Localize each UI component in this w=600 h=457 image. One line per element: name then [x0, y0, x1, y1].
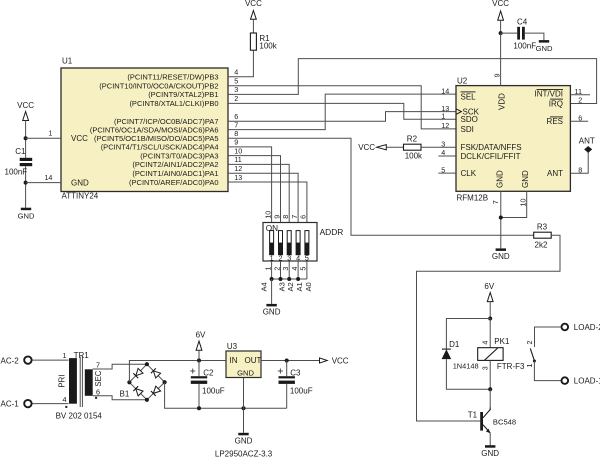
svg-text:INT/VDI: INT/VDI: [535, 90, 563, 99]
svg-text:FSK/DATA/NFFS: FSK/DATA/NFFS: [461, 143, 522, 152]
wire C3 bottom: [286, 384, 288, 408]
svg-text:GND: GND: [481, 449, 499, 457]
svg-text:12: 12: [234, 164, 242, 173]
svg-text:12: 12: [441, 121, 449, 130]
IC U1 ATTINY24 body: [61, 68, 228, 192]
svg-text:TR1: TR1: [74, 351, 90, 360]
svg-text:VCC: VCC: [71, 134, 88, 143]
svg-text:GND: GND: [71, 179, 89, 188]
svg-text:A3: A3: [278, 282, 287, 291]
svg-text:(PCINT4/T1/SCL/USCK/ADC4)PA4: (PCINT4/T1/SCL/USCK/ADC4)PA4: [101, 143, 219, 152]
svg-text:4: 4: [234, 68, 238, 77]
transistor T1 base bar: [480, 412, 483, 431]
wire C4 to ground: [525, 33, 544, 40]
junction node VDD: [499, 31, 503, 35]
svg-text:3: 3: [234, 85, 238, 94]
wire U2 pin10 GND: [501, 191, 527, 217]
svg-text:AC-1: AC-1: [1, 400, 20, 409]
junction node U3 gnd: [242, 406, 246, 410]
junction dots address bus: [270, 277, 301, 281]
svg-text:100nF: 100nF: [513, 41, 536, 50]
wire C2 top: [198, 361, 200, 377]
svg-text:R3: R3: [537, 223, 548, 232]
svg-text:A1: A1: [295, 282, 304, 291]
svg-text:U1: U1: [62, 57, 73, 66]
svg-text:SDO: SDO: [461, 115, 478, 124]
junction node pin14: [24, 181, 28, 185]
svg-text:GND: GND: [492, 252, 510, 261]
svg-text:4: 4: [290, 267, 299, 271]
ground (U2): [496, 248, 506, 251]
wire U2 pin5 stub: [438, 172, 456, 174]
wire PA5 to R3: [228, 138, 534, 235]
svg-text:RES: RES: [547, 117, 563, 126]
svg-text:2: 2: [525, 341, 534, 345]
T1 collector lead: [483, 410, 490, 418]
svg-text:LOAD-1: LOAD-1: [574, 377, 600, 386]
svg-text:7: 7: [491, 200, 500, 204]
diode D1: [442, 349, 452, 359]
TR1 core: [79, 357, 81, 408]
ground (ADDR): [266, 304, 276, 307]
svg-text:3: 3: [281, 267, 290, 271]
svg-text:7: 7: [290, 215, 299, 219]
capacitor C4: [517, 27, 520, 40]
wire U2 pin7 GND: [500, 191, 502, 248]
wire U2 pin6 stub: [570, 120, 588, 122]
svg-text:GND: GND: [521, 170, 530, 188]
svg-text:BC548: BC548: [493, 417, 516, 426]
terminal AC-2: [24, 356, 31, 363]
svg-text:R2: R2: [407, 134, 418, 143]
svg-text:RFM12B: RFM12B: [457, 194, 489, 203]
junction node relay bottom: [488, 387, 492, 391]
svg-text:9: 9: [272, 215, 281, 219]
svg-text:VCC: VCC: [492, 0, 509, 8]
wire relay top to D1: [446, 319, 490, 350]
svg-text:9: 9: [234, 138, 238, 147]
wire DIP bottom bus: [271, 261, 273, 279]
svg-text:CLK: CLK: [461, 169, 477, 178]
svg-text:VCC: VCC: [17, 101, 34, 110]
wire PA2 to DIP pin 8: [228, 164, 289, 222]
svg-text:ATTINY24: ATTINY24: [62, 192, 99, 201]
wire relay coil bottom: [489, 360, 491, 389]
wire PB0 to SDO: [228, 103, 456, 119]
U1 pin numbers: [44, 68, 242, 182]
junction node pin1: [24, 136, 28, 140]
svg-text:100k: 100k: [259, 42, 277, 51]
wire R1 to U1 pin4: [228, 50, 253, 77]
relay contact blade: [530, 348, 534, 360]
svg-text:100nF: 100nF: [5, 168, 28, 177]
svg-text:6V: 6V: [196, 331, 206, 340]
wire PA7 to SCK: [228, 112, 456, 122]
svg-text:U3: U3: [227, 342, 238, 351]
svg-text:LOAD-2: LOAD-2: [574, 323, 600, 332]
VCC arrow (PSU out): [320, 358, 328, 363]
svg-text:GND: GND: [263, 308, 281, 317]
svg-text:(PCINT8/XTAL1/CLKI)PB0: (PCINT8/XTAL1/CLKI)PB0: [129, 99, 218, 108]
svg-text:2k2: 2k2: [535, 240, 548, 249]
wire C3 top: [286, 361, 288, 377]
svg-text:1: 1: [263, 267, 272, 271]
svg-text:(PCINT0/AREF/ADC0)PA0: (PCINT0/AREF/ADC0)PA0: [129, 178, 218, 187]
capacitor C2: [191, 376, 207, 378]
DIP switch actuators: [270, 231, 309, 255]
wire U3 gnd down: [243, 378, 245, 433]
wire AC-2 to TR1 pin1: [32, 359, 68, 361]
DIP bottom pin numbers: [263, 267, 307, 271]
svg-text:4: 4: [296, 253, 300, 262]
svg-text:SEC: SEC: [94, 370, 103, 386]
wire TR1 pin7 to bridge: [93, 364, 147, 369]
wire emitter to ground: [489, 433, 491, 445]
wire A4 to ground: [271, 279, 273, 304]
svg-text:7: 7: [96, 361, 100, 370]
svg-text:1: 1: [48, 128, 52, 137]
svg-text:10: 10: [234, 146, 242, 155]
wire PA1 to DIP pin 7: [228, 173, 298, 222]
wire ANT pin: [570, 152, 588, 173]
wire collector: [489, 389, 491, 407]
svg-text:ANT: ANT: [547, 169, 563, 178]
wire U2 pin4 stub: [438, 155, 456, 157]
svg-text:1: 1: [441, 112, 445, 121]
wire bridge plus to rail: [129, 361, 226, 383]
svg-text:IRQ: IRQ: [549, 99, 563, 108]
wire PA6 to SEL: [228, 94, 456, 130]
wire D1 to relay bottom node: [446, 359, 490, 389]
svg-text:D1: D1: [449, 340, 460, 349]
svg-text:14: 14: [44, 173, 52, 182]
wire R2 left: [386, 146, 403, 148]
ground (T1): [485, 445, 495, 448]
VCC arrow (R2): [377, 145, 387, 150]
capacitor C1: [20, 158, 33, 161]
svg-text:GND: GND: [495, 170, 504, 188]
svg-text:IN: IN: [230, 356, 238, 365]
C2 plus sign: [190, 370, 195, 372]
TR1 polarity dot secondary: [95, 397, 97, 399]
wire PA4 to DIP pin 10: [228, 147, 272, 223]
C3 plus sign: [278, 370, 283, 372]
svg-text:SDI: SDI: [461, 125, 474, 134]
wire PB2 to SDI: [228, 86, 456, 129]
svg-text:1: 1: [270, 253, 274, 262]
svg-text:PK1: PK1: [494, 337, 510, 346]
wire AC-1 to TR1 pin4: [32, 403, 68, 405]
VCC arrow (R1): [251, 11, 257, 20]
svg-text:A0: A0: [304, 282, 313, 291]
junction node C3: [285, 359, 289, 363]
IC U2 RFM12B body: [456, 86, 570, 192]
wire R2 to U2 pin3: [421, 146, 456, 148]
svg-text:C4: C4: [517, 17, 528, 26]
svg-text:C1: C1: [15, 147, 26, 156]
U2 clock symbol: [456, 109, 461, 115]
terminal AC-1: [24, 400, 31, 407]
junction node U2 gnd: [499, 216, 503, 220]
wire U1 pin1 stub: [26, 137, 61, 139]
ground (C4): [539, 40, 549, 43]
wire PA0 to DIP pin 6: [228, 182, 307, 223]
svg-text:SEL: SEL: [461, 92, 477, 101]
svg-text:2: 2: [272, 267, 281, 271]
wire 6V to relay node: [489, 302, 491, 319]
svg-text:6V: 6V: [484, 282, 494, 291]
svg-text:(PCINT3/T0/ADC3)PA3: (PCINT3/T0/ADC3)PA3: [140, 151, 218, 160]
voltage regulator U3: [226, 351, 261, 378]
svg-text:100uF: 100uF: [290, 387, 313, 396]
VCC arrow (U2 supply): [498, 11, 504, 20]
svg-text:ADDR: ADDR: [320, 227, 344, 237]
relay coil PK1: [478, 348, 503, 361]
svg-text:ANT: ANT: [579, 137, 595, 146]
capacitor C3: [279, 376, 295, 378]
junction node relay top: [488, 317, 492, 321]
svg-text:U2: U2: [457, 76, 468, 85]
svg-text:GND: GND: [237, 368, 254, 377]
load terminal LOAD-1: [562, 377, 569, 384]
6V arrow (PSU): [196, 341, 202, 350]
svg-text:OUT: OUT: [245, 356, 262, 365]
DIP top pin numbers: [263, 211, 307, 219]
svg-text:(PCINT9/XTAL2)PB1: (PCINT9/XTAL2)PB1: [148, 90, 218, 99]
resistor R2: [404, 144, 422, 150]
svg-text:PRI: PRI: [57, 375, 66, 388]
wire 6V arrow to rail: [198, 350, 200, 360]
svg-text:1: 1: [525, 364, 534, 368]
svg-text:11: 11: [234, 155, 241, 164]
bridge rectifier B1: [129, 364, 164, 400]
wire VCC to R1: [252, 19, 254, 33]
svg-text:5: 5: [305, 253, 309, 262]
svg-text:10: 10: [263, 211, 272, 219]
DIP switch ADDR body: [263, 223, 317, 262]
svg-text:BV 202 0154: BV 202 0154: [56, 411, 103, 420]
svg-text:T1: T1: [468, 410, 478, 419]
svg-text:GND: GND: [235, 436, 253, 445]
svg-text:5: 5: [299, 267, 308, 271]
svg-text:3: 3: [287, 253, 291, 262]
load terminal LOAD-2: [562, 324, 569, 331]
wire VDD node to C4: [501, 32, 518, 34]
svg-text:A4: A4: [260, 282, 269, 291]
svg-text:B1: B1: [120, 389, 130, 398]
wire PB1 to IRQ: [228, 59, 597, 104]
svg-text:VCC: VCC: [358, 143, 375, 152]
wire LOAD-2 to contact: [535, 327, 562, 347]
svg-text:100uF: 100uF: [202, 387, 225, 396]
svg-text:FTR-F3: FTR-F3: [497, 362, 525, 371]
svg-text:9: 9: [492, 74, 501, 78]
U2 pin numbers: [441, 74, 582, 207]
wire bridge minus to gnd rail: [165, 382, 287, 408]
junction node C2: [197, 359, 201, 363]
svg-text:(PCINT2/AIN1/ADC2)PA2: (PCINT2/AIN1/ADC2)PA2: [132, 160, 218, 169]
svg-text:VDD: VDD: [498, 93, 507, 110]
resistor R1: [250, 33, 256, 50]
svg-text:3: 3: [481, 366, 490, 370]
svg-text:2: 2: [234, 94, 238, 103]
VCC arrow (U1 supply): [23, 112, 29, 121]
wire C2 bottom: [198, 384, 200, 408]
resistor R3: [534, 232, 552, 238]
svg-text:6: 6: [299, 215, 308, 219]
svg-text:GND: GND: [536, 44, 553, 53]
TR1 secondary winding: [85, 369, 93, 396]
svg-text:13: 13: [234, 173, 242, 182]
svg-text:(PCINT5/OC1B/MISO/DO/ADC5)PA5: (PCINT5/OC1B/MISO/DO/ADC5)PA5: [94, 134, 218, 143]
6V arrow (relay): [487, 293, 493, 302]
svg-text:(PCINT1/AIN0/ADC1)PA1: (PCINT1/AIN0/ADC1)PA1: [132, 169, 218, 178]
TR1 primary winding: [69, 358, 77, 404]
svg-text:1N4148: 1N4148: [453, 362, 479, 371]
svg-text:A2: A2: [286, 282, 295, 291]
ground (C1): [21, 208, 31, 211]
svg-text:1: 1: [63, 351, 67, 360]
wire U2 pin11 stub: [570, 94, 590, 96]
junction node C2 gnd: [197, 406, 201, 410]
T1 emitter lead: [483, 425, 490, 433]
svg-text:AC-2: AC-2: [1, 356, 20, 365]
wire VCC rail to C1/GND: [25, 121, 27, 158]
wire U1 pin14 stub: [26, 182, 61, 184]
TR1 polarity dot primary: [65, 406, 67, 408]
svg-text:DCLK/CFIL/FFIT: DCLK/CFIL/FFIT: [461, 152, 521, 161]
wire TR1 pin6 to bridge: [93, 396, 147, 400]
svg-text:14: 14: [441, 86, 449, 95]
svg-text:LP2950ACZ-3.3: LP2950ACZ-3.3: [215, 449, 273, 457]
wire VDD node down to U2: [500, 33, 502, 86]
svg-text:C2: C2: [203, 368, 214, 377]
wire relay coil top: [489, 319, 491, 348]
U1 right pin names: [90, 73, 219, 187]
wire contact to LOAD-1: [534, 361, 561, 381]
svg-text:10: 10: [518, 199, 527, 207]
svg-text:8: 8: [281, 215, 290, 219]
svg-text:100k: 100k: [405, 152, 423, 161]
svg-text:C3: C3: [290, 368, 301, 377]
svg-text:(PCINT11/RESET/DW)PB3: (PCINT11/RESET/DW)PB3: [127, 73, 218, 82]
svg-text:VCC: VCC: [332, 357, 349, 366]
svg-text:8: 8: [234, 129, 238, 138]
ground (U3): [238, 433, 248, 436]
svg-text:GND: GND: [18, 211, 35, 220]
wire U3 out rail: [261, 360, 320, 362]
svg-text:VCC: VCC: [245, 0, 262, 8]
wire PA3 to DIP pin 9: [228, 156, 281, 223]
svg-text:2: 2: [279, 253, 283, 262]
wire R3 to T1 base: [417, 235, 561, 421]
svg-text:4: 4: [481, 341, 490, 345]
svg-text:2: 2: [578, 96, 582, 105]
wire VCC to VDD node: [500, 20, 502, 33]
antenna symbol: [585, 147, 592, 153]
DIP switch numbers 1-5: [270, 253, 309, 262]
svg-text:4: 4: [63, 395, 67, 404]
